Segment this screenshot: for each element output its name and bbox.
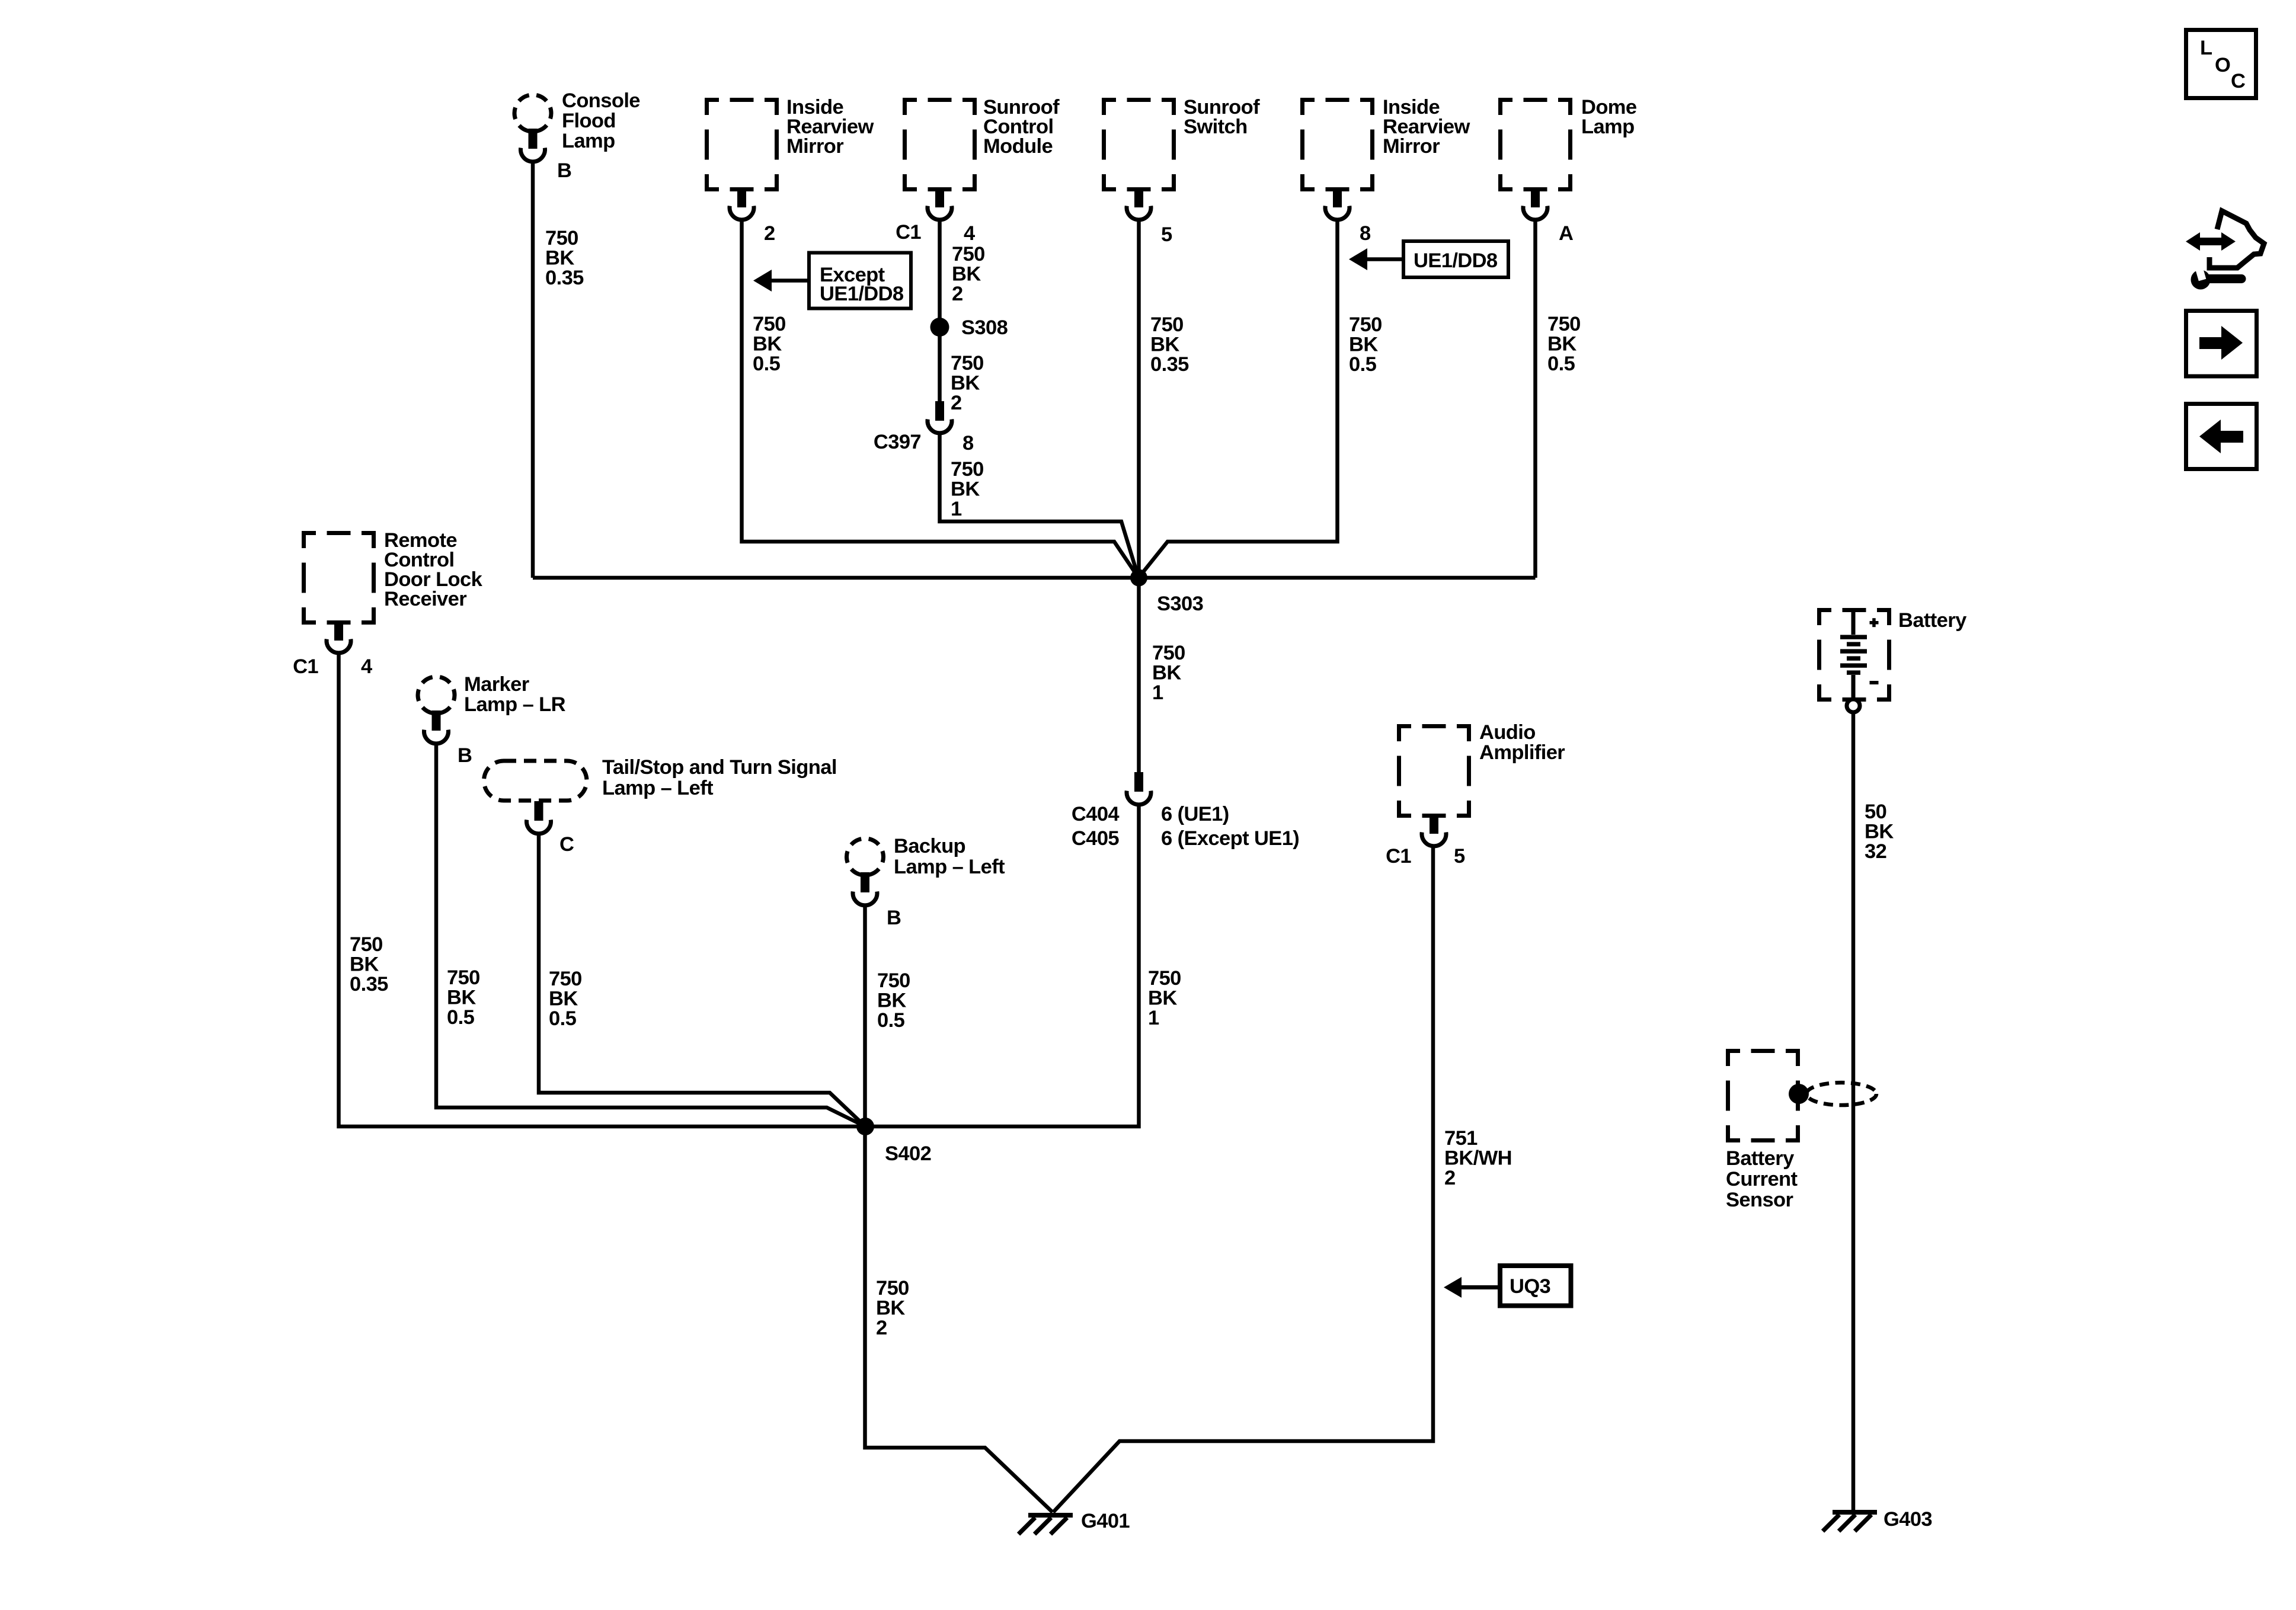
pin 5 of Sunroof Switch	[1161, 223, 1172, 246]
svg-text:BK: BK	[1148, 987, 1177, 1010]
svg-text:750: 750	[1152, 642, 1185, 664]
svg-text:BK/WH: BK/WH	[1444, 1147, 1512, 1170]
lamp: Console Flood Lamp	[514, 89, 640, 162]
wire 750 BK 1 from S303 to C404	[1152, 642, 1185, 704]
svg-text:Audio: Audio	[1479, 721, 1536, 744]
svg-text:BK: BK	[549, 988, 578, 1010]
lamp: Marker Lamp - LR	[418, 673, 566, 744]
svg-text:0.5: 0.5	[549, 1007, 577, 1030]
svg-text:0.5: 0.5	[877, 1009, 905, 1032]
svg-text:0.5: 0.5	[1547, 353, 1575, 375]
connector C1 label of Audio Amplifier	[1386, 845, 1411, 868]
svg-text:Sensor: Sensor	[1726, 1189, 1793, 1211]
svg-text:Lamp: Lamp	[562, 130, 615, 152]
svg-text:750: 750	[753, 313, 786, 335]
svg-text:UE1/DD8: UE1/DD8	[820, 283, 904, 305]
svg-text:Backup: Backup	[894, 835, 965, 857]
svg-text:6 (Except UE1): 6 (Except UE1)	[1161, 827, 1299, 850]
connector C1 label	[896, 221, 921, 244]
svg-text:Battery: Battery	[1726, 1147, 1794, 1170]
ground G403	[1823, 1508, 1933, 1531]
svg-text:750: 750	[1547, 313, 1581, 335]
svg-text:G403: G403	[1884, 1508, 1932, 1531]
connector box: Dome Lamp	[1498, 96, 1637, 220]
svg-text:BK: BK	[447, 987, 476, 1009]
svg-text:8: 8	[1360, 222, 1371, 245]
svg-text:B: B	[887, 907, 901, 929]
pin 2 of Inside Rearview Mirror	[764, 222, 775, 245]
splice S303	[1130, 569, 1203, 616]
battery negative terminal	[1847, 699, 1860, 712]
pin A of Dome Lamp	[1559, 222, 1573, 245]
splice S402	[856, 1118, 931, 1165]
svg-text:Tail/Stop and Turn Signal: Tail/Stop and Turn Signal	[602, 756, 837, 779]
svg-text:750: 750	[545, 227, 578, 249]
pin C of Tail/Stop Lamp	[559, 833, 574, 856]
svg-text:C1: C1	[896, 221, 921, 244]
svg-text:750: 750	[951, 352, 984, 375]
wire 750 BK 0.5 from Dome Lamp to S303	[1536, 219, 1581, 578]
pin B of Marker Lamp	[458, 744, 472, 767]
pin 8 of Inside Rearview Mirror	[1360, 222, 1371, 245]
svg-text:BK: BK	[951, 372, 980, 395]
wire 750 BK 0.35 from switch pin 5 through S303 to C404	[1139, 219, 1189, 772]
svg-text:0.5: 0.5	[753, 353, 781, 375]
svg-text:750: 750	[1349, 313, 1382, 336]
battery (dashed box with cell symbol)	[1817, 608, 1966, 702]
svg-text:BK: BK	[876, 1297, 905, 1320]
svg-text:B: B	[557, 159, 571, 182]
wire 750 BK 0.5 from mirror pin 8 to S303	[1139, 219, 1382, 578]
svg-text:BK: BK	[350, 953, 379, 976]
svg-text:BK: BK	[1865, 821, 1894, 843]
svg-text:C: C	[2231, 70, 2245, 92]
svg-text:BK: BK	[877, 990, 906, 1012]
svg-text:0.35: 0.35	[350, 973, 388, 996]
sensor clamp loop around battery cable	[1806, 1083, 1876, 1105]
svg-text:Module: Module	[983, 135, 1053, 158]
previous-page arrow box	[2186, 404, 2257, 469]
svg-text:750: 750	[952, 243, 985, 265]
svg-text:32: 32	[1865, 840, 1886, 863]
option flag: Except UE1/DD8	[753, 253, 911, 309]
wire 750 BK 2 from S402 to G401	[876, 1277, 909, 1339]
connector box: Inside Rearview Mirror (right)	[1300, 96, 1470, 220]
svg-text:Lamp – Left: Lamp – Left	[602, 777, 714, 799]
svg-text:751: 751	[1444, 1127, 1478, 1150]
svg-text:2: 2	[952, 283, 963, 305]
wire 750 BK 0.5/2 from Backup Lamp through S402 to G401	[865, 905, 1053, 1512]
svg-text:BK: BK	[753, 333, 782, 356]
svg-text:Switch: Switch	[1184, 116, 1248, 138]
svg-text:2: 2	[1444, 1167, 1456, 1189]
connector C1 label of receiver	[293, 655, 318, 678]
svg-text:BK: BK	[1349, 334, 1378, 356]
pin 4 of receiver	[361, 655, 372, 678]
connector box: Remote Control Door Lock Receiver	[302, 529, 483, 653]
wire 750 BK 0.5 from mirror pin 2 to S303	[742, 219, 1139, 578]
wire 50 BK 32 from battery to G403	[1853, 712, 1894, 1510]
svg-text:Console: Console	[562, 89, 640, 112]
svg-text:1: 1	[951, 498, 962, 520]
svg-text:0.5: 0.5	[1349, 353, 1377, 376]
pin 4 of Sunroof Control Module	[964, 222, 975, 245]
svg-text:4: 4	[361, 655, 372, 678]
svg-text:B: B	[458, 744, 472, 767]
svg-text:750: 750	[350, 933, 383, 956]
svg-text:Amplifier: Amplifier	[1479, 741, 1565, 764]
svg-text:BK: BK	[1547, 333, 1576, 356]
next-page arrow box	[2186, 311, 2257, 377]
svg-text:Mirror: Mirror	[786, 135, 843, 158]
in-line connector C404/C405	[1072, 772, 1151, 850]
svg-text:BK: BK	[952, 263, 981, 286]
svg-text:C1: C1	[1386, 845, 1411, 868]
svg-text:A: A	[1559, 222, 1573, 245]
ground G401	[1019, 1510, 1130, 1534]
svg-text:750: 750	[877, 969, 910, 992]
pin 6 labels of C404/C405	[1161, 803, 1299, 850]
svg-text:Lamp – LR: Lamp – LR	[464, 693, 566, 716]
wire 750 BK 2 from S308 to C397	[951, 352, 984, 414]
svg-text:Flood: Flood	[562, 110, 616, 132]
wire 750 BK 0.5 from Tail/Stop Lamp to S402	[539, 833, 865, 1126]
connector box: Audio Amplifier	[1397, 721, 1565, 846]
wire 750 BK 1 from C397 to S303	[940, 433, 1139, 578]
wire 750 BK 1 from C404 to S402	[865, 804, 1181, 1126]
svg-text:5: 5	[1454, 845, 1465, 868]
svg-text:C404: C404	[1072, 803, 1119, 825]
svg-text:750: 750	[447, 966, 480, 989]
svg-text:2: 2	[951, 392, 962, 414]
svg-text:Mirror: Mirror	[1383, 135, 1440, 158]
svg-text:S308: S308	[961, 316, 1008, 339]
diagnostic icon (arrows, connector outline, wrench)	[2186, 211, 2264, 290]
svg-text:UQ3: UQ3	[1510, 1275, 1550, 1298]
svg-text:C1: C1	[293, 655, 318, 678]
option flag: UE1/DD8	[1349, 241, 1508, 277]
svg-text:S303: S303	[1157, 593, 1203, 615]
ground bus wire into S303	[533, 576, 1536, 580]
lamp: Tail/Stop and Turn Signal Lamp - Left	[484, 756, 837, 834]
wire 750 BK 0.35 from Console Flood Lamp to S303	[533, 161, 584, 578]
svg-text:750: 750	[1148, 967, 1181, 990]
svg-text:S402: S402	[885, 1142, 931, 1165]
battery current sensor (dashed box)	[1726, 1049, 1800, 1211]
svg-text:O: O	[2215, 54, 2230, 76]
svg-text:BK: BK	[1150, 334, 1179, 356]
wire 750 BK 2 from module pin 4 to S308	[940, 219, 985, 401]
connector box: Inside Rearview Mirror (left)	[705, 96, 874, 220]
svg-text:50: 50	[1865, 801, 1886, 823]
svg-text:G401: G401	[1081, 1510, 1130, 1532]
svg-text:Receiver: Receiver	[384, 588, 466, 610]
svg-text:Lamp: Lamp	[1581, 116, 1635, 138]
svg-text:0.5: 0.5	[447, 1006, 475, 1029]
svg-text:BK: BK	[545, 247, 574, 270]
svg-text:1: 1	[1152, 681, 1163, 704]
connector box: Sunroof Switch	[1102, 96, 1260, 220]
svg-text:2: 2	[876, 1317, 887, 1339]
pin 8 of C397	[962, 432, 974, 454]
svg-text:C: C	[559, 833, 574, 856]
svg-text:Current: Current	[1726, 1168, 1798, 1190]
pin B of Backup Lamp	[887, 907, 901, 929]
svg-text:2: 2	[764, 222, 775, 245]
connector box: Sunroof Control Module	[903, 96, 1060, 220]
svg-text:750: 750	[876, 1277, 909, 1299]
svg-text:1: 1	[1148, 1007, 1159, 1029]
svg-text:750: 750	[1150, 313, 1184, 336]
svg-text:Marker: Marker	[464, 673, 529, 696]
svg-text:5: 5	[1161, 223, 1172, 246]
svg-text:UE1/DD8: UE1/DD8	[1414, 249, 1498, 272]
svg-text:6 (UE1): 6 (UE1)	[1161, 803, 1229, 825]
svg-text:Battery: Battery	[1898, 609, 1966, 632]
svg-text:BK: BK	[951, 478, 980, 501]
pin 5 of Audio Amplifier	[1454, 845, 1465, 868]
svg-text:750: 750	[951, 458, 984, 481]
sensor clamp node	[1789, 1084, 1809, 1104]
lamp: Backup Lamp - Left	[847, 835, 1006, 905]
svg-text:L: L	[2200, 37, 2212, 59]
wire 751 BK/WH 2 from Audio Amplifier to G401	[1053, 846, 1512, 1512]
pin B of Console Flood Lamp	[557, 159, 571, 182]
wire 750 BK 0.5 from Marker Lamp to S402	[436, 743, 865, 1126]
svg-text:4: 4	[964, 222, 975, 245]
option flag: UQ3	[1444, 1266, 1571, 1306]
svg-text:0.35: 0.35	[1150, 353, 1189, 376]
svg-text:BK: BK	[1152, 662, 1181, 684]
wire 750 BK 0.35 from receiver to S402	[339, 652, 866, 1126]
svg-text:8: 8	[962, 432, 974, 454]
LOC reference box	[2186, 30, 2256, 98]
in-line connector C397	[874, 401, 952, 453]
svg-text:750: 750	[549, 968, 582, 990]
svg-text:0.35: 0.35	[545, 267, 584, 289]
splice S308	[930, 316, 1008, 339]
svg-text:C397: C397	[874, 431, 921, 453]
svg-text:Lamp – Left: Lamp – Left	[894, 856, 1005, 878]
svg-text:C405: C405	[1072, 827, 1119, 850]
